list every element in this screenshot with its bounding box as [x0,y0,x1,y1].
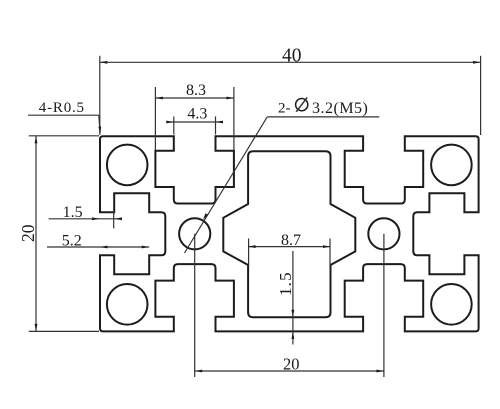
svg-text:4.3: 4.3 [187,106,207,123]
dim 8.3 line [155,97,234,99]
svg-text:8.7: 8.7 [281,232,301,249]
dim 4.3 extensions [173,116,175,134]
svg-text:20: 20 [283,355,300,374]
corner bore bottom-left [107,284,148,325]
corner bore top-left [107,145,148,186]
corner bore bottom-right [431,284,472,325]
svg-text:5.2: 5.2 [62,232,82,249]
dim 40 extension right [480,56,482,135]
svg-text:2-: 2- [278,101,291,117]
dim 8.7 line [248,246,330,248]
callout 4-R0.5 leader [28,114,99,116]
dim 1.5 left line [49,218,121,220]
hole M5 right [368,218,399,249]
svg-text:20: 20 [18,224,38,242]
dim 20 left extensions [29,135,99,137]
dim 20 bottom line [195,370,384,372]
dim 5.2 line [47,246,149,248]
svg-text:8.3: 8.3 [186,82,206,99]
dim 1.5 bottom line [292,251,294,345]
dim 8.3 extensions [154,87,156,151]
svg-text:1.5: 1.5 [276,271,295,296]
svg-text:4-R0.5: 4-R0.5 [39,100,85,116]
profile outline with T-slots [100,136,479,331]
dim 20 left line [35,136,37,332]
dim 40 line [100,61,481,63]
dim 8.7 extensions [248,239,250,267]
corner bore top-right [431,145,472,186]
svg-text:40: 40 [282,46,302,67]
dim 40 extension left [99,56,101,135]
svg-text:1.5: 1.5 [63,204,83,221]
svg-text:3.2(M5): 3.2(M5) [312,100,368,117]
diameter symbol [296,99,308,111]
dim 4.3 line [166,121,221,123]
callout 2-dia3.2(M5) leader [267,116,379,118]
center cavity [223,151,355,317]
dim 20 bottom extensions [194,234,196,377]
hole M5 left [179,218,210,249]
